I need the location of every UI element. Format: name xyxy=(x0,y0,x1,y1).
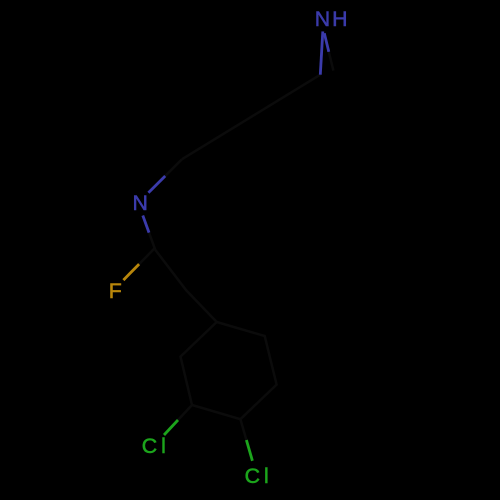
svg-text:NH: NH xyxy=(315,7,350,31)
svg-text:Cl: Cl xyxy=(245,464,273,488)
svg-text:F: F xyxy=(109,279,122,303)
svg-text:N: N xyxy=(133,191,148,215)
svg-text:Cl: Cl xyxy=(142,434,170,458)
